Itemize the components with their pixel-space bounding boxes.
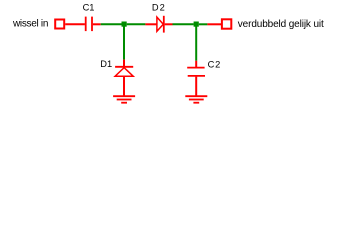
wire: port P1 to C1 (red pin) — [65, 23, 85, 25]
svg-text:D1: D1 — [100, 59, 112, 69]
wire: D2 to node B (green) — [173, 23, 194, 25]
svg-text:C1: C1 — [83, 3, 95, 13]
node B junction — [194, 22, 199, 27]
svg-text:D2: D2 — [152, 3, 166, 13]
wire: node A to D2 (green) — [127, 23, 146, 25]
node A junction — [122, 22, 127, 27]
port P1 (wissel in) — [55, 20, 64, 29]
wire: red pin into port P2 — [207, 23, 221, 25]
diode D1 — [115, 60, 133, 96]
ground GND1 — [113, 96, 135, 103]
wire: node B to port P2 (green stub) — [199, 23, 208, 25]
capacitor C2 — [187, 61, 205, 96]
ground GND2 — [185, 96, 207, 103]
svg-text:verdubbeld gelijk uit: verdubbeld gelijk uit — [238, 19, 324, 30]
wire: node A down to D1 (green) — [123, 27, 125, 60]
svg-text:C2: C2 — [208, 60, 221, 70]
diode D2 — [145, 16, 172, 33]
wire: C1 to node A (green) — [101, 23, 122, 25]
svg-text:wissel in: wissel in — [12, 19, 48, 30]
capacitor C1 — [86, 17, 101, 32]
port P2 (verdubbeld gelijk uit) — [222, 19, 231, 28]
wire: node B down to C2 (green) — [195, 27, 197, 61]
